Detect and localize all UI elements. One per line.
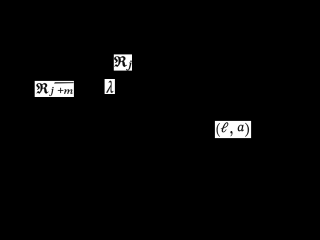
- label box lambda background: [105, 79, 115, 94]
- black figure background: [0, 0, 291, 189]
- comma of (l,a): [230, 131, 232, 136]
- label box R_j+m background: [35, 81, 74, 97]
- label box R_j background: [114, 54, 132, 70]
- fraktur R of R_j+m: [36, 83, 48, 94]
- lambda glyph: [106, 81, 113, 93]
- italic a of (l,a): [238, 125, 244, 132]
- overline over j+m: [54, 82, 74, 83]
- subscript j of R_j: [126, 61, 132, 71]
- left paren of (l,a): [217, 123, 220, 137]
- label box (l,a) background: [215, 121, 251, 138]
- fraktur R of R_j: [114, 56, 127, 67]
- subscript j of R_j+m: [49, 87, 53, 96]
- script ell of (l,a): [221, 122, 228, 132]
- subscript m of R_j+m: [64, 89, 73, 93]
- subscript plus of R_j+m: [58, 88, 63, 93]
- right paren of (l,a): [245, 123, 249, 137]
